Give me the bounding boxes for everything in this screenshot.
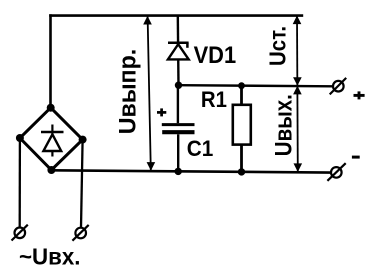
terminal: AC input right (circle with slash) (72, 225, 88, 241)
node: bridge left corner (16, 134, 24, 142)
dimension arrow Uвыпр. (top rail to bottom rail) (143, 16, 155, 171)
svg-text:C1: C1 (187, 136, 214, 161)
zener diode VD1 (168, 43, 189, 60)
wire: left AC input drop (19, 138, 21, 227)
node: C1 bottom junction (175, 168, 182, 175)
dimension arrow Uст. / Uвых. (top rail to mid rail to bottom rail) (293, 16, 302, 173)
terminal: − output (circle with slash) (327, 163, 345, 181)
svg-text:Uвыпр.: Uвыпр. (115, 49, 142, 135)
polarity + of C1 (157, 108, 166, 116)
node: bridge top corner (47, 104, 55, 112)
resistor R1 (233, 86, 251, 172)
wire: top rail (bridge + to Uст dimension) (49, 14, 303, 17)
bridge rectifier (diamond) (20, 108, 83, 170)
node: R1 bottom junction (238, 168, 245, 175)
wire: bottom rail (bridge − to − output) (51, 170, 330, 172)
terminal: + output (circle with slash) (330, 78, 347, 95)
node: VD1 / C1 / mid-rail junction (175, 82, 182, 89)
wire: left vertical from top rail down to bridge top corner (49, 14, 52, 108)
diode symbol inside bridge (41, 125, 64, 157)
svg-text:VD1: VD1 (194, 42, 237, 69)
node: bridge bottom corner (47, 166, 55, 174)
label + (output polarity) (354, 91, 365, 99)
capacitor C1 (162, 85, 195, 172)
svg-text:~Uвх.: ~Uвх. (19, 244, 81, 270)
node: R1 top junction (238, 82, 245, 89)
svg-text:R1: R1 (201, 87, 227, 112)
wire: right AC input drop (81, 140, 83, 228)
label − (output polarity) (352, 156, 360, 159)
terminal: AC input left (circle with slash) (12, 225, 28, 241)
wire: VD1 branch from top rail down to mid-rail junction (177, 16, 180, 86)
wire: mid rail to + output (179, 85, 333, 86)
svg-text:Uст.: Uст. (265, 26, 291, 66)
node: bridge right corner (79, 136, 87, 144)
svg-text:Uвых.: Uвых. (270, 94, 297, 156)
